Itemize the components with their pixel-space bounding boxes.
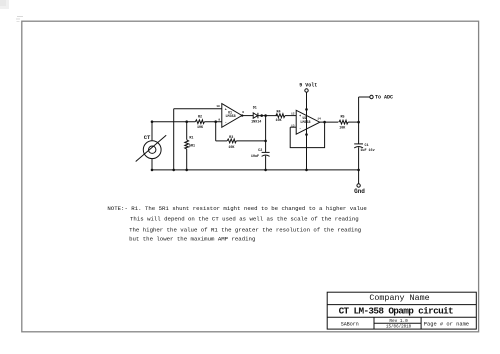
- wire R4 to U2: [285, 115, 296, 117]
- svg-text:+: +: [299, 115, 301, 119]
- svg-text:Company Name: Company Name: [369, 293, 429, 303]
- resistor R4: [276, 114, 285, 118]
- wire U2 output: [320, 121, 339, 123]
- svg-text:This will depend on the CT use: This will depend on the CT used as well …: [130, 216, 359, 223]
- svg-text:C1: C1: [365, 144, 369, 148]
- svg-text:9: 9: [218, 119, 220, 122]
- 9 volt terminal: [305, 89, 308, 92]
- feedback loop U2: [290, 122, 324, 148]
- resistor R2: [195, 120, 204, 124]
- wire R3 to output node: [236, 140, 265, 142]
- svg-text:NOTE:- R1. The 5R1 shunt resis: NOTE:- R1. The 5R1 shunt resistor might …: [107, 205, 367, 212]
- scan smudge top-left: [0, 0, 9, 9]
- op-amp U1: [222, 104, 242, 128]
- wire U2 inverting input: [290, 126, 296, 128]
- 9 volt supply wire: [306, 92, 308, 170]
- svg-text:1uF 16v: 1uF 16v: [360, 149, 374, 153]
- svg-text:CT: CT: [144, 134, 151, 141]
- op-amp U2: [296, 110, 320, 134]
- resistor R3: [227, 139, 236, 143]
- svg-text:10K: 10K: [275, 119, 282, 123]
- svg-text:10K: 10K: [339, 127, 346, 131]
- junction dots: [151, 108, 360, 171]
- svg-text:LM358: LM358: [300, 121, 310, 125]
- wire D1 to R4: [258, 115, 277, 117]
- wire to ground terminal: [358, 170, 360, 184]
- svg-text:D1: D1: [253, 107, 257, 111]
- svg-text:-: -: [225, 122, 227, 126]
- title block: [327, 292, 476, 329]
- svg-text:R4: R4: [276, 110, 280, 114]
- svg-text:Gnd: Gnd: [354, 188, 365, 195]
- svg-text:15/06/2010: 15/06/2010: [386, 325, 412, 330]
- svg-text:Rev 1.0: Rev 1.0: [389, 319, 408, 324]
- svg-text:14: 14: [317, 118, 321, 121]
- wire CT top: [151, 122, 153, 141]
- ground terminal: [357, 184, 360, 187]
- ground rail: [152, 169, 359, 171]
- resistor R1 shunt: [185, 122, 189, 170]
- svg-text:10: 10: [216, 105, 220, 108]
- wire ADC vertical: [358, 97, 360, 144]
- svg-text:The higher the value of R1 the: The higher the value of R1 the greater t…: [129, 226, 361, 233]
- component labels: [144, 82, 393, 195]
- feedback tap wire: [216, 122, 227, 141]
- capacitor C1: [354, 144, 363, 170]
- wire non-inverting to ground rail: [173, 109, 175, 170]
- svg-text:LM358: LM358: [226, 115, 236, 119]
- CT current transformer: [136, 135, 167, 161]
- wire U1 non-inverting input: [174, 108, 222, 110]
- svg-text:10uF: 10uF: [251, 155, 259, 159]
- svg-text:R3: R3: [229, 136, 233, 140]
- svg-text:C2: C2: [258, 149, 262, 153]
- svg-text:1N914: 1N914: [251, 121, 261, 125]
- svg-text:9 Volt: 9 Volt: [299, 82, 317, 88]
- svg-text:R1: R1: [189, 137, 193, 141]
- svg-text:but the lower the maximum AMP: but the lower the maximum AMP reading: [129, 236, 255, 243]
- svg-text:To ADC: To ADC: [375, 95, 393, 101]
- wire signal to R2: [152, 121, 195, 123]
- svg-text:R2: R2: [198, 115, 202, 119]
- svg-text:+: +: [225, 108, 227, 112]
- svg-text:Page # or name: Page # or name: [424, 321, 469, 327]
- svg-text:8: 8: [242, 111, 244, 114]
- op-amp pin labels and polarity: [216, 105, 321, 131]
- note text: [107, 205, 367, 243]
- wire R2 to U1 inverting input: [205, 121, 222, 123]
- capacitor C2: [262, 152, 270, 170]
- svg-text:SABorn: SABorn: [341, 321, 359, 327]
- svg-text:10K: 10K: [228, 146, 235, 150]
- svg-text:12: 12: [291, 112, 295, 115]
- svg-text:-: -: [299, 128, 301, 132]
- svg-text:5R1: 5R1: [189, 144, 195, 148]
- ADC terminal: [370, 95, 373, 98]
- wire to ADC terminal: [359, 96, 370, 98]
- diode D1: [253, 113, 258, 119]
- svg-text:10K: 10K: [197, 126, 204, 130]
- svg-text:13: 13: [291, 125, 295, 128]
- wire U1 output: [242, 115, 253, 117]
- svg-text:R5: R5: [340, 116, 344, 120]
- wire R5 to node: [348, 121, 359, 123]
- resistor R5: [339, 120, 348, 124]
- wire node to C2: [265, 116, 267, 153]
- svg-text:CT LM-358 Opamp circuit: CT LM-358 Opamp circuit: [339, 305, 453, 316]
- wire CT bottom: [151, 158, 153, 170]
